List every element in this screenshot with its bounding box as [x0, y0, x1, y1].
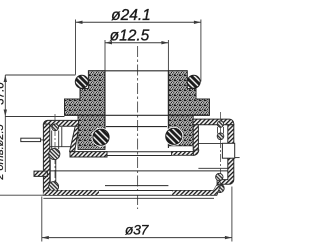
flange arm left [34, 171, 47, 176]
coil turn 2 [217, 133, 224, 140]
right cup wall-lip corner [193, 150, 198, 155]
screw mid ball left [49, 148, 60, 159]
vertical centerline of part [137, 46, 139, 209]
right cup top face [193, 119, 234, 125]
extension line right of D37 [231, 187, 233, 242]
left rotated dimension line [4, 75, 6, 172]
svg-text:ø37: ø37 [125, 222, 150, 238]
hub top line [106, 126, 167, 128]
bottom band hatch right [172, 186, 220, 195]
left terminal tab [21, 138, 41, 141]
svg-text:ø12.5: ø12.5 [110, 28, 150, 45]
bottom extra line [43, 197, 214, 199]
right outer wall [217, 125, 234, 184]
bearing ball left (white seat + ball) [92, 128, 111, 147]
right channel line [198, 142, 222, 144]
screw shank left lower [49, 160, 51, 183]
screw head left [52, 124, 59, 131]
coil turn 3 [216, 173, 223, 180]
extension line left of D24.1 [75, 20, 77, 75]
lower stippled block left [78, 116, 105, 150]
bore walls [104, 71, 106, 148]
upper body top edge line [88, 70, 187, 72]
coil column right: centerline [220, 112, 222, 193]
hub lines [106, 151, 172, 153]
left dim arrows [4, 75, 7, 117]
left channel line [50, 146, 71, 148]
left dim extension at y=75 [5, 74, 75, 76]
left inner cup wall [70, 126, 79, 151]
coil link upper [217, 127, 219, 134]
upper right stippled block [168, 71, 209, 116]
right inner cup lip [172, 152, 194, 156]
center boss line [105, 185, 168, 187]
right inner cup wall [193, 125, 198, 150]
upper body bottom edge [65, 114, 210, 116]
coil turn 1 [217, 121, 223, 127]
svg-text:2 отв.ø2.5: 2 отв.ø2.5 [0, 123, 6, 180]
coil turn 4 [216, 184, 224, 192]
screw bottom ball left [49, 182, 59, 192]
left channel tube line [61, 127, 63, 147]
right channel lower line [198, 167, 227, 169]
upper seal ball right [187, 75, 200, 88]
screw column left: centerline [54, 114, 56, 194]
extension line right of D12.5 [167, 40, 169, 71]
upper left stippled block [65, 71, 106, 116]
upper seal ball left [75, 75, 88, 88]
extension line right of D24.1 [200, 20, 202, 82]
flange top line [50, 170, 228, 172]
svg-text:ø24.1: ø24.1 [111, 7, 151, 24]
bottom band plate [43, 185, 220, 195]
left outer wall [43, 124, 49, 191]
bearing ball right [164, 127, 183, 146]
right terminal box [222, 143, 234, 158]
left dim extension at y=195 [0, 194, 43, 196]
left dim extension at y=116.5 [5, 116, 64, 118]
dimension line D12.5 [105, 41, 168, 44]
extension line left of D12.5 (bore wall extension) [104, 40, 106, 71]
dimension line D37 [42, 236, 232, 239]
dimension line D24.1 [76, 21, 201, 24]
svg-text:37.6: 37.6 [0, 82, 6, 105]
extension line left of D37 [41, 197, 43, 242]
bottom band hatch left [43, 191, 99, 196]
lower stippled block right [168, 116, 193, 146]
screw shank left upper [51, 131, 53, 150]
left inner cup lip [70, 152, 107, 157]
left cup top face [43, 120, 78, 126]
